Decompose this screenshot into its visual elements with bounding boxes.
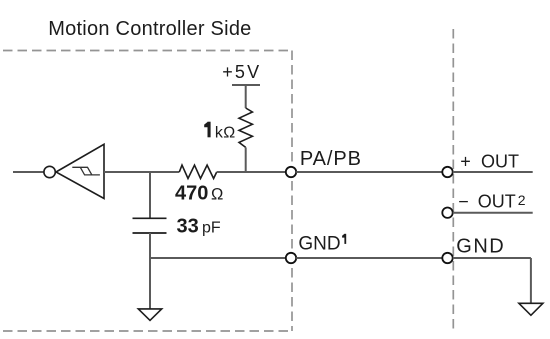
svg-text:470: 470 xyxy=(175,182,208,204)
inverter U1 (Schmitt-trigger buffer triangle) xyxy=(56,144,104,198)
hysteresis symbol xyxy=(72,167,100,175)
capacitor 33 pF top plate xyxy=(133,217,167,219)
resistor 1 kohm zigzag xyxy=(239,108,252,147)
wire: down to encoder ground xyxy=(530,258,532,303)
svg-text:PA/PB: PA/PB xyxy=(300,148,362,170)
dashed separator line (encoder side) xyxy=(452,29,454,332)
dashed box top edge xyxy=(3,50,292,52)
svg-text:OUT: OUT xyxy=(478,192,516,212)
wire: capacitor branch from main wire xyxy=(149,172,151,218)
svg-text:Motion Controller Side: Motion Controller Side xyxy=(48,18,251,40)
wire: inverter output to 470 ohm resistor xyxy=(104,171,179,173)
svg-text:GND: GND xyxy=(298,233,340,254)
resistor 470 ohm zigzag xyxy=(179,165,216,178)
node GND circle xyxy=(442,253,452,263)
wire: PA/PB to +OUT xyxy=(296,171,442,173)
dashed box right edge xyxy=(291,51,293,332)
ground (motion controller side) xyxy=(138,309,161,321)
inverter bubble xyxy=(44,166,55,177)
node GND1 circle xyxy=(286,253,296,263)
node +OUT circle xyxy=(442,167,452,177)
wire: GND1 to GND xyxy=(296,257,442,259)
svg-text:OUT: OUT xyxy=(481,151,519,171)
dashed box bottom edge xyxy=(3,330,292,332)
wire: GND to right corner xyxy=(453,257,531,259)
+5V power rail bar xyxy=(232,84,260,86)
wire: +5V bar to 1 kohm resistor xyxy=(245,85,247,108)
svg-text:Ω: Ω xyxy=(211,185,223,203)
capacitor 33 pF bottom plate xyxy=(133,232,167,234)
ground (encoder side) xyxy=(519,303,543,315)
value label 1 kohm xyxy=(208,122,211,138)
wire: junction down to ground xyxy=(149,258,151,309)
wire: capacitor junction to GND1 node xyxy=(150,257,286,259)
wire: +OUT stub to right xyxy=(453,171,533,173)
wire: input lead into inverter bubble xyxy=(13,171,44,173)
svg-text:kΩ: kΩ xyxy=(215,124,236,141)
svg-text:GND: GND xyxy=(456,236,505,258)
svg-text:+: + xyxy=(460,151,471,171)
svg-text:+5V: +5V xyxy=(222,62,261,82)
wire: 1 kohm resistor to node xyxy=(245,147,247,172)
node -OUT circle xyxy=(442,208,452,218)
svg-text:33: 33 xyxy=(177,216,199,238)
node PA/PB circle xyxy=(286,167,296,177)
wire: 470 ohm resistor to node PA/PB xyxy=(217,171,286,173)
wire: capacitor to ground junction xyxy=(149,233,151,258)
svg-text:−: − xyxy=(458,192,469,212)
wire: -OUT stub to right xyxy=(453,212,533,214)
svg-text:pF: pF xyxy=(202,220,221,237)
svg-text:2: 2 xyxy=(518,192,526,208)
